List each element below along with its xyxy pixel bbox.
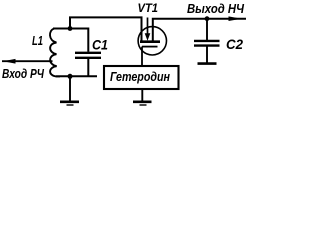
arrow: RF input (points left)	[3, 59, 16, 64]
channel line	[140, 40, 160, 43]
wire: top rail from tank to VT1 drain	[70, 17, 142, 41]
ground: under tank	[60, 101, 79, 104]
ground: under oscillator	[133, 101, 152, 104]
source lead + output wire	[153, 19, 246, 41]
svg-text:Гетеродин: Гетеродин	[110, 70, 170, 84]
arrow: IF output (points right)	[229, 16, 242, 21]
svg-text:C1: C1	[92, 38, 108, 53]
gate line	[142, 46, 158, 48]
svg-text:Вход РЧ: Вход РЧ	[2, 66, 45, 81]
wire: tank bottom rail	[56, 75, 97, 77]
svg-text:L1: L1	[32, 34, 43, 48]
node: junction dot at top of tank	[68, 26, 73, 31]
inductor L1	[50, 29, 60, 77]
svg-text:VT1: VT1	[138, 1, 159, 15]
box: heterodyne oscillator	[104, 66, 179, 89]
wire: down from output to C2	[206, 19, 208, 40]
substrate lead with arrow	[147, 18, 149, 35]
wire: tank to ground	[69, 76, 71, 100]
transistor VT1 (MOSFET in circle)	[138, 18, 246, 67]
wire: oscillator to ground	[141, 89, 143, 101]
capacitor C1	[75, 53, 101, 76]
svg-text:Выход НЧ: Выход НЧ	[187, 1, 245, 16]
envelope circle	[138, 27, 166, 55]
node: junction dot on output wire	[205, 16, 210, 21]
capacitor C2	[194, 41, 220, 63]
wire: RF input line	[2, 60, 53, 62]
ground: under C2	[198, 62, 217, 65]
svg-text:C2: C2	[226, 37, 243, 52]
gate lead down to oscillator	[141, 47, 143, 66]
wire: tank top rail (L1 to C1)	[53, 29, 88, 52]
node: junction dot bottom of tank	[68, 74, 73, 79]
